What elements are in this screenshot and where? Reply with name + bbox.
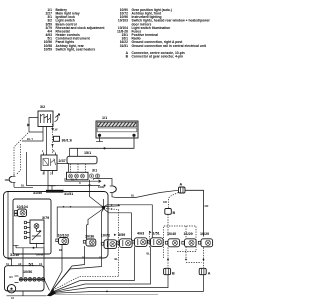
ground fan blob xyxy=(47,290,56,297)
dashed riser left xyxy=(14,133,28,174)
wire ignition down to junction xyxy=(90,180,104,208)
outer console box xyxy=(4,192,109,259)
svg-text:1/51: 1/51 xyxy=(153,232,160,236)
wire 16/22 to connector A xyxy=(112,190,178,197)
star junction xyxy=(102,199,105,209)
svg-text:BL: BL xyxy=(21,184,25,188)
svg-text:BL: BL xyxy=(147,252,151,256)
junction ray right upper xyxy=(104,205,121,208)
svg-text:B: B xyxy=(173,211,176,215)
switch knob symbol xyxy=(55,114,61,122)
instrument ground wire xyxy=(7,291,47,296)
ignition lock 3/1 xyxy=(67,164,100,185)
svg-text:10/103: 10/103 xyxy=(118,19,128,23)
wire relay to rail xyxy=(47,175,49,190)
svg-text:10/36: 10/36 xyxy=(85,235,94,239)
dashed feed lamp 16/29 xyxy=(185,226,187,239)
svg-text:Ground connection rail in cent: Ground connection rail in central electr… xyxy=(132,44,207,48)
svg-text:3/59: 3/59 xyxy=(118,233,125,237)
wire below lamp 4/63 to ground fan xyxy=(52,246,134,292)
lower connector A xyxy=(199,259,211,276)
svg-text:10/72: 10/72 xyxy=(101,234,110,238)
combined instrument 5/1 xyxy=(5,262,45,291)
svg-text:16/22: 16/22 xyxy=(98,185,105,189)
wire A to right drop xyxy=(185,190,204,236)
svg-text:BL-Y: BL-Y xyxy=(27,137,33,141)
feed wire into instrument top xyxy=(22,248,24,266)
svg-text:10/103: 10/103 xyxy=(58,234,69,238)
box right of relay xyxy=(57,164,69,173)
inner box xyxy=(13,199,51,254)
connector A (centre console) xyxy=(179,182,186,193)
dashed stub at lamp 16/1 xyxy=(148,231,150,248)
dashed line to relay coil xyxy=(52,124,54,154)
lamp 16/1 radio illumination xyxy=(148,231,163,246)
dashed link lamp 16/29 to A drop xyxy=(185,259,187,261)
junction ray to lamp row xyxy=(104,205,153,238)
svg-text:BL: BL xyxy=(131,194,135,198)
lamp 16/29 xyxy=(182,232,196,247)
svg-text:B: B xyxy=(172,272,175,276)
lower connector B xyxy=(164,259,175,276)
wire ignition to 16/22 xyxy=(94,179,113,184)
dashed collector to ground fan xyxy=(52,276,119,291)
svg-text:31/51: 31/51 xyxy=(120,44,128,48)
wire below lamp 16/1 to ground fan xyxy=(52,246,150,292)
lamp 10/40 xyxy=(165,232,179,247)
svg-text:A: A xyxy=(208,272,211,276)
dashed wire B down to lamp xyxy=(167,214,169,236)
left feed wire into instrument xyxy=(8,192,12,266)
ground connection 16/15 left A post xyxy=(5,174,16,187)
ground rail 31/51 (thick bar) xyxy=(46,190,64,193)
lamp 4/63 heater controls xyxy=(132,232,147,247)
wire: switch left loop xyxy=(29,118,43,133)
positive terminal 15/1 xyxy=(67,148,97,164)
junction ray left lamps xyxy=(57,207,103,238)
battery 1/1 xyxy=(96,116,138,138)
svg-text:10/56: 10/56 xyxy=(23,270,32,274)
rheostat and clock adjustment 3/79 xyxy=(24,216,49,244)
connector 36/1:6 xyxy=(54,136,72,142)
svg-text:BL: BL xyxy=(99,256,103,260)
svg-text:BL: BL xyxy=(82,256,86,260)
svg-text:4/4: 4/4 xyxy=(9,275,13,279)
wires below left lamps to ground fan xyxy=(51,245,63,293)
junction dot xyxy=(103,147,105,149)
battery positive wire xyxy=(70,137,135,148)
svg-text:31/10: 31/10 xyxy=(10,253,19,257)
switch light heated rear window 10/103 xyxy=(56,234,69,245)
long wire through lamp 10/72 down to ground fan xyxy=(51,209,104,292)
central electrical unit box edge xyxy=(27,152,101,186)
svg-text:GR: GR xyxy=(205,204,209,208)
wire below A to ground fan xyxy=(203,247,205,268)
svg-text:BL: BL xyxy=(115,257,119,261)
lamp 10/59 switch light seat heaters xyxy=(114,233,132,247)
wire BL to ground rail xyxy=(14,187,33,189)
light switch illumination 10/104 xyxy=(15,205,29,217)
svg-text:Switch light, seat heaters: Switch light, seat heaters xyxy=(56,47,96,51)
rheostat 4/4 in instrument xyxy=(7,285,15,293)
svg-text:10/40: 10/40 xyxy=(167,232,176,236)
svg-text:Connector at gear selector, 4-: Connector at gear selector, 4-pin xyxy=(132,55,184,59)
dashed wire A to connector B xyxy=(169,193,179,209)
dashed console group box around lamps 10/40 16/29 xyxy=(164,226,197,258)
svg-text:2/37: 2/37 xyxy=(59,159,66,163)
junction node on unit box edge xyxy=(104,185,106,187)
svg-text:3/79: 3/79 xyxy=(42,216,49,220)
svg-text:OR/W: OR/W xyxy=(36,253,44,257)
legend left column xyxy=(44,8,106,51)
svg-text:GR: GR xyxy=(163,200,167,204)
battery ground xyxy=(96,137,103,142)
svg-text:10/104: 10/104 xyxy=(17,205,29,209)
wires below 3/79 xyxy=(33,244,44,257)
svg-text:1/1: 1/1 xyxy=(102,116,107,120)
svg-text:3/2: 3/2 xyxy=(40,105,45,109)
svg-text:BL-Y: BL-Y xyxy=(71,178,77,182)
svg-text:3/1: 3/1 xyxy=(92,169,97,173)
svg-text:31/51: 31/51 xyxy=(64,192,73,196)
svg-text:36/1:6: 36/1:6 xyxy=(62,139,72,143)
ashtray light rear 10/58 xyxy=(83,235,96,247)
panel lamps row in 5/1 xyxy=(9,266,45,283)
wire BL-Y to bus arrow xyxy=(65,178,98,181)
main light relay 2/27 xyxy=(41,149,66,176)
junction ray lower xyxy=(104,209,132,241)
light switch 3/2 xyxy=(38,105,53,127)
junction ray right dashed xyxy=(104,209,119,277)
wire 3/79 to ground fan xyxy=(44,248,50,291)
relay 2/27 bottom pins xyxy=(44,171,53,175)
svg-text:BL: BL xyxy=(59,248,63,252)
svg-text:16/29: 16/29 xyxy=(184,232,193,236)
wire: switch pin to relay xyxy=(46,127,48,156)
svg-text:10/59: 10/59 xyxy=(44,47,52,51)
connector B (gear selector) xyxy=(165,209,176,216)
svg-text:15/1: 15/1 xyxy=(84,151,91,155)
wire below B to ground fan xyxy=(167,247,169,268)
ground 31/10 xyxy=(10,245,44,257)
legend right column xyxy=(117,8,211,59)
svg-text:A: A xyxy=(180,182,183,186)
svg-text:10/20: 10/20 xyxy=(200,232,209,236)
lamp 10/72 ashtray front xyxy=(101,234,117,249)
lamp 10/20 gear position light xyxy=(198,232,212,247)
ground connection 16/22 right A post xyxy=(98,184,116,195)
svg-text:LW: LW xyxy=(54,128,58,132)
svg-text:X: X xyxy=(79,181,81,185)
svg-text:4/63: 4/63 xyxy=(137,232,144,236)
wire BL-Y from switch down-left xyxy=(22,127,43,142)
